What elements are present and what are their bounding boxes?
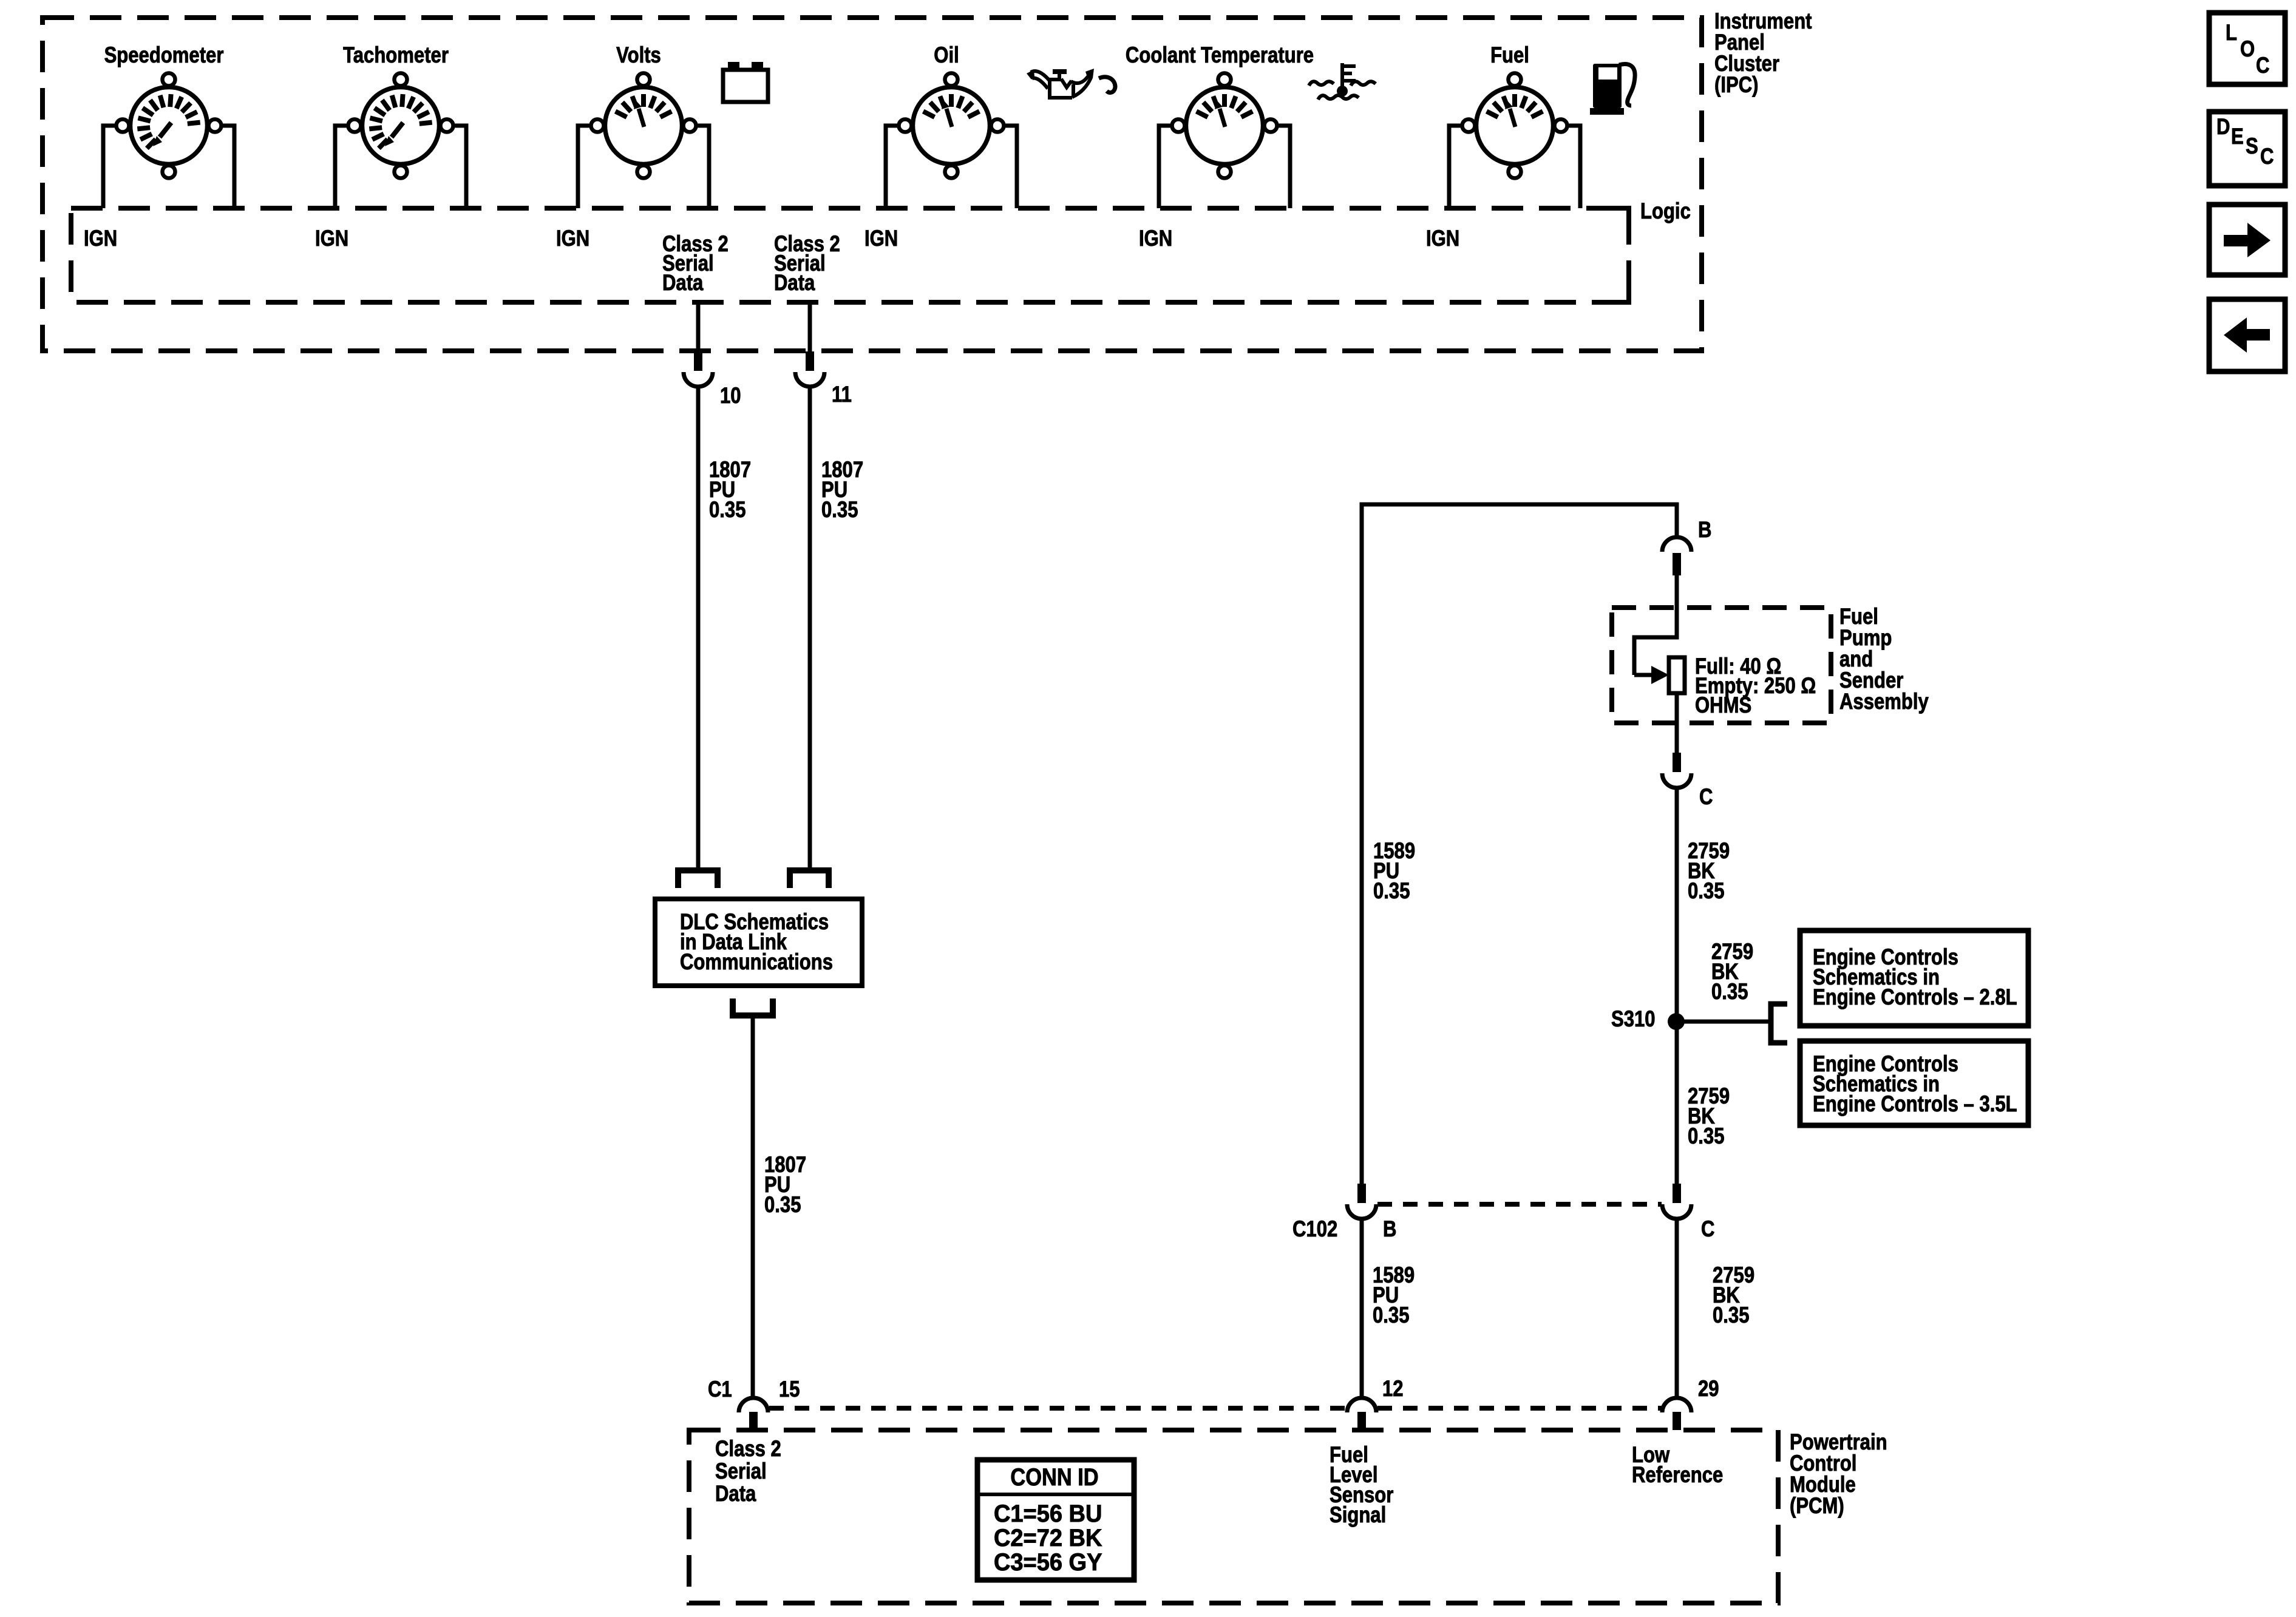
DLC connector bracket (wire 10) — [678, 870, 718, 888]
Oil wires to Logic box — [886, 126, 898, 208]
DLC Schematics box — [655, 899, 862, 986]
connector C102 C — [1673, 1184, 1681, 1203]
sender resistor — [1669, 657, 1685, 693]
svg-text:C1=56 BUC2=72 BKC3=56 GY: C1=56 BUC2=72 BKC3=56 GY — [994, 1500, 1102, 1576]
PCM top dotted line — [769, 1406, 1347, 1411]
connector PCM pin 29 — [1662, 1398, 1691, 1412]
svg-text:B: B — [1698, 518, 1711, 543]
Fuel wires to Logic box — [1449, 126, 1462, 208]
svg-text:29: 29 — [1698, 1377, 1719, 1402]
coolant temperature icon — [1309, 63, 1376, 100]
connector PCM pin 12 — [1347, 1398, 1376, 1412]
DESC nav box — [2209, 112, 2285, 186]
svg-text:Volts: Volts — [616, 43, 661, 68]
svg-text:Speedometer: Speedometer — [104, 43, 224, 68]
Coolant Temperature wires to Logic box — [1159, 126, 1172, 208]
wire 1807 PU (DLC to PCM C1-15) — [751, 1019, 755, 1398]
svg-text:Oil: Oil — [934, 43, 959, 68]
svg-text:S310: S310 — [1611, 1007, 1656, 1032]
battery icon (Volts) — [723, 62, 768, 102]
splice S310 — [1668, 1013, 1685, 1030]
wire: Class 2 serial data pin 11 vertical — [808, 302, 812, 353]
Powertrain Control Module dashed box — [689, 1430, 1778, 1603]
Logic box corner stubs — [1601, 208, 1629, 236]
Logic dashed box — [71, 208, 1629, 302]
wire 1589 PU (C102 to PCM 12) — [1360, 1219, 1364, 1398]
C102 dotted line — [1377, 1202, 1662, 1207]
connector B (fuel sender) — [1662, 537, 1691, 552]
svg-text:15: 15 — [779, 1377, 800, 1402]
CONN ID table — [977, 1460, 1134, 1580]
svg-text:B: B — [1383, 1217, 1396, 1242]
svg-text:C: C — [2256, 53, 2269, 78]
svg-text:S: S — [2246, 134, 2258, 159]
svg-text:IGN: IGN — [1139, 226, 1172, 251]
gauge: Tachometer — [348, 73, 453, 178]
fork bracket to engine controls boxes — [1771, 1004, 1787, 1043]
svg-text:IGN: IGN — [315, 226, 348, 251]
svg-text:O: O — [2240, 37, 2255, 62]
svg-text:IGN: IGN — [84, 226, 117, 251]
svg-text:C: C — [2260, 144, 2274, 169]
svg-text:C1: C1 — [708, 1377, 732, 1402]
wiper arrow of sender resistor — [1634, 673, 1652, 677]
gauge: Volts — [591, 73, 696, 178]
svg-text:Fuel: Fuel — [1490, 43, 1529, 68]
wire 1589 PU top horizontal — [1362, 504, 1677, 1185]
Speedometer wires to Logic box — [103, 126, 116, 208]
fuel pump icon (Fuel) — [1590, 64, 1635, 115]
Instrument Panel Cluster (IPC) dashed box — [42, 18, 1702, 351]
svg-text:Coolant Temperature: Coolant Temperature — [1126, 43, 1314, 68]
LOC nav box — [2209, 13, 2285, 84]
svg-text:L: L — [2226, 21, 2237, 46]
Volts wires to Logic box — [578, 126, 591, 208]
wire into fuel pump assembly — [1634, 575, 1677, 675]
svg-text:IGN: IGN — [864, 226, 898, 251]
svg-text:11: 11 — [832, 382, 852, 407]
connector C102 B — [1357, 1184, 1366, 1203]
gauge: Speedometer — [117, 73, 222, 178]
connector C1 pin 15 — [739, 1398, 768, 1412]
oil can icon (Oil) — [1027, 69, 1115, 98]
Tachometer wires to Logic box — [335, 126, 348, 208]
wire 1807 PU (pin 10 to DLC) — [696, 387, 701, 867]
svg-text:Logic: Logic — [1640, 199, 1691, 224]
svg-text:C: C — [1701, 1217, 1714, 1242]
wire 2759 BK (C102 to PCM 29) — [1675, 1219, 1679, 1398]
connector C (fuel sender) — [1673, 753, 1681, 772]
svg-text:D: D — [2216, 115, 2230, 140]
svg-text:IGN: IGN — [556, 226, 589, 251]
svg-text:10: 10 — [720, 384, 741, 408]
DLC bottom bracket — [733, 998, 773, 1015]
svg-text:Tachometer: Tachometer — [343, 43, 449, 68]
svg-text:C: C — [1699, 785, 1713, 810]
connector pin 11 terminal — [806, 351, 814, 371]
wire resistor to C terminal — [1675, 693, 1679, 754]
Engine Controls 3.5L reference box — [1800, 1041, 2028, 1125]
left arrow nav box — [2209, 299, 2285, 371]
svg-text:IGN: IGN — [1426, 226, 1459, 251]
gauge: Fuel — [1462, 73, 1567, 178]
connector pin 10 terminal — [694, 351, 702, 371]
wire 2759 BK (C to S310) — [1675, 788, 1679, 1185]
Engine Controls 2.8L reference box — [1800, 931, 2028, 1026]
svg-text:12: 12 — [1382, 1377, 1404, 1402]
svg-text:E: E — [2231, 124, 2244, 149]
wire S310 to engine controls fork — [1676, 1020, 1771, 1024]
gauge: Coolant Temperature — [1172, 73, 1277, 178]
right arrow nav box — [2209, 205, 2285, 275]
svg-text:C102: C102 — [1292, 1217, 1337, 1242]
wire 1807 PU (pin 11 to DLC) — [808, 387, 812, 867]
svg-text:CONN ID: CONN ID — [1010, 1463, 1098, 1491]
Fuel Pump and Sender Assembly dashed box — [1612, 608, 1831, 723]
DLC connector bracket (wire 11) — [790, 870, 829, 888]
wire: Class 2 serial data pin 10 vertical — [696, 302, 701, 353]
gauge: Oil — [899, 73, 1004, 178]
